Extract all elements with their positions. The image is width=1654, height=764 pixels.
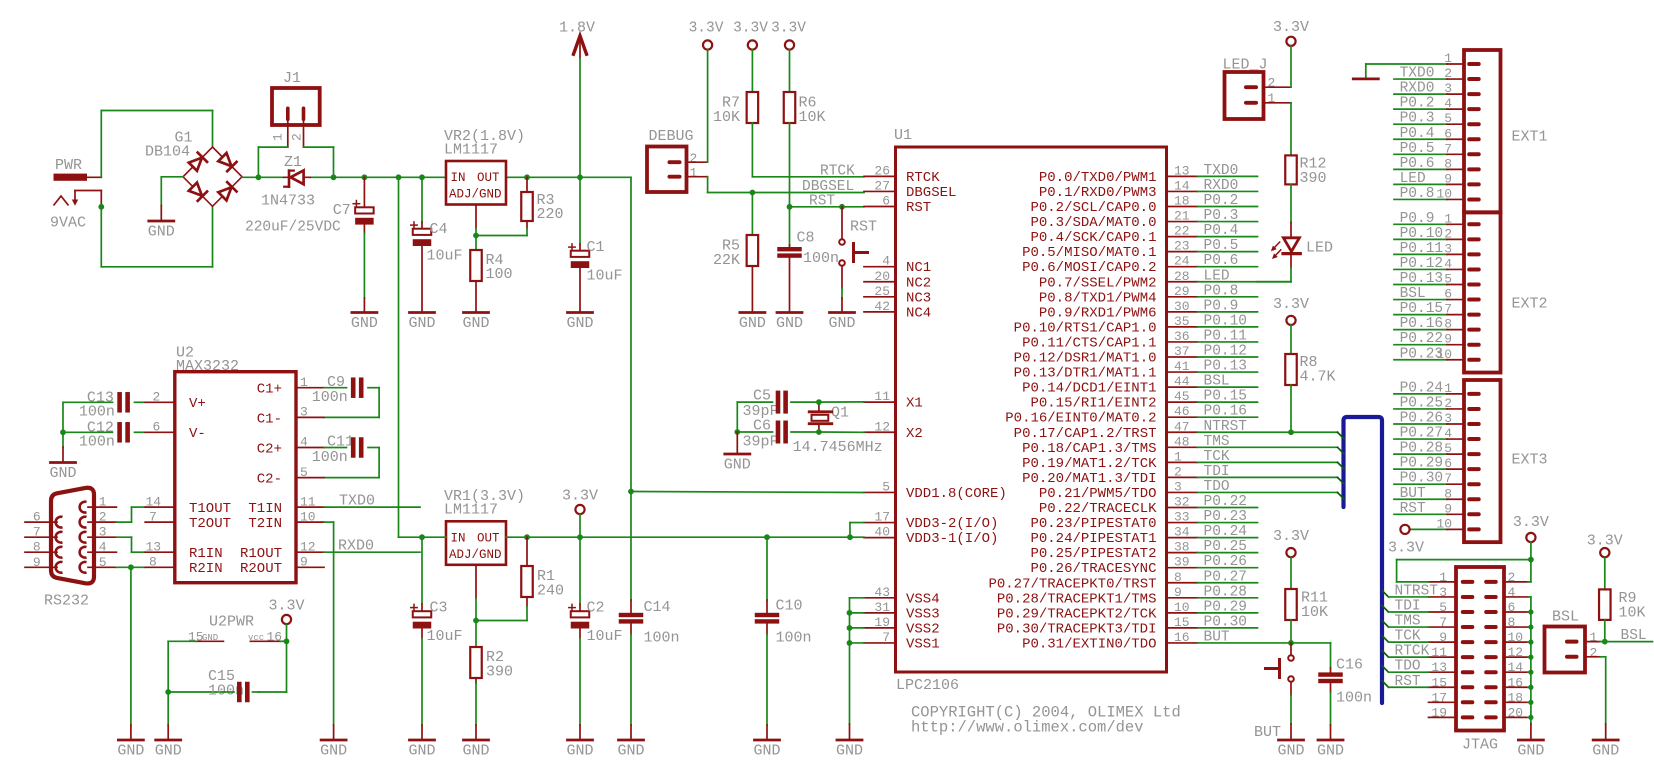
wire DEBUG pin2 to 3.3V xyxy=(707,50,709,163)
svg-text:RST: RST xyxy=(1395,674,1421,690)
svg-text:RXD0: RXD0 xyxy=(1400,81,1435,97)
bus JTAG (blue) xyxy=(1344,417,1383,703)
svg-text:4: 4 xyxy=(882,254,890,269)
JTAG left stubs xyxy=(1429,582,1457,717)
JTAG pin numbers xyxy=(1431,570,1523,720)
svg-text:NC3: NC3 xyxy=(906,290,931,306)
svg-text:3: 3 xyxy=(300,405,308,420)
wire U2PWR vcc/gnd + C15 xyxy=(168,641,286,692)
svg-text:P0.4: P0.4 xyxy=(1204,223,1239,239)
svg-text:1: 1 xyxy=(271,133,286,141)
connector EXT2 xyxy=(1464,213,1501,373)
svg-text:P0.27/TRACEPKT0/TRST: P0.27/TRACEPKT0/TRST xyxy=(988,576,1156,592)
svg-text:GND: GND xyxy=(828,315,855,332)
wire C13/C12 gnd leg xyxy=(62,402,64,432)
svg-text:2: 2 xyxy=(1590,645,1598,660)
svg-text:T1OUT: T1OUT xyxy=(189,501,231,517)
svg-text:NC1: NC1 xyxy=(906,260,931,276)
svg-text:11: 11 xyxy=(874,389,890,404)
diode G1 bottom-right xyxy=(218,182,237,201)
svg-text:41: 41 xyxy=(1174,359,1190,374)
svg-text:P0.11: P0.11 xyxy=(1400,241,1444,257)
svg-text:10uF: 10uF xyxy=(587,628,623,645)
pushbutton BUT xyxy=(1254,643,1305,760)
svg-text:P0.23: P0.23 xyxy=(1204,509,1248,525)
svg-text:C2+: C2+ xyxy=(257,442,282,458)
wire DB9 pin5 / R2IN to gnd xyxy=(116,555,174,570)
svg-text:P0.22: P0.22 xyxy=(1204,494,1248,510)
svg-text:1: 1 xyxy=(1174,449,1182,464)
svg-text:10: 10 xyxy=(1174,600,1190,615)
svg-text:RST: RST xyxy=(850,219,877,236)
svg-text:BUT: BUT xyxy=(1204,629,1230,645)
svg-text:EXT1: EXT1 xyxy=(1512,129,1548,146)
capacitor C12 100n xyxy=(63,420,175,451)
svg-text:7: 7 xyxy=(882,630,890,645)
capacitor C6 39pF xyxy=(737,418,819,451)
ground DB9 pin5 xyxy=(130,567,132,725)
svg-text:P0.28/TRACEPKT1/TMS: P0.28/TRACEPKT1/TMS xyxy=(997,591,1157,607)
svg-text:GND: GND xyxy=(1317,743,1344,760)
svg-text:14: 14 xyxy=(1174,178,1190,193)
regulator VR1 LM1117 3.3V xyxy=(444,488,525,565)
svg-text:P0.18/CAP1.3/TMS: P0.18/CAP1.3/TMS xyxy=(1022,441,1156,457)
junction BUT at R11 xyxy=(1288,640,1294,646)
svg-text:GND: GND xyxy=(1517,743,1544,760)
svg-text:DBGSEL: DBGSEL xyxy=(906,185,956,201)
svg-text:P0.23/PIPESTAT0: P0.23/PIPESTAT0 xyxy=(1030,516,1156,532)
svg-text:P0.26: P0.26 xyxy=(1400,411,1444,427)
ground JTAG xyxy=(1517,724,1544,760)
ground U2PWR xyxy=(167,692,169,725)
svg-text:3.3V: 3.3V xyxy=(1513,514,1549,531)
wire RXD0 from U2 xyxy=(296,538,420,555)
svg-text:P0.4: P0.4 xyxy=(1400,126,1435,142)
connector RS232 DB9 xyxy=(44,488,94,610)
svg-text:8: 8 xyxy=(1174,570,1182,585)
junction V+ at C4 xyxy=(419,174,425,180)
wire JTAG pin2 xyxy=(1504,560,1531,582)
junction 9VAC node xyxy=(98,204,104,210)
svg-text:BUT: BUT xyxy=(1254,724,1281,741)
svg-text:390: 390 xyxy=(486,664,513,681)
supply 3.3V at U2PWR xyxy=(268,598,304,642)
svg-text:P0.15/RI1/EINT2: P0.15/RI1/EINT2 xyxy=(1030,396,1156,412)
capacitor C8 100n xyxy=(776,207,839,332)
resistor R12 390 xyxy=(1285,103,1326,223)
svg-text:P0.8: P0.8 xyxy=(1204,283,1239,299)
svg-text:OUT: OUT xyxy=(477,171,500,185)
svg-text:2: 2 xyxy=(1174,464,1182,479)
svg-text:P0.30: P0.30 xyxy=(1400,471,1444,487)
svg-text:2: 2 xyxy=(153,390,161,405)
svg-text:GND: GND xyxy=(1592,743,1619,760)
wire VR1 ADJ xyxy=(475,565,477,621)
resistor R3 220 xyxy=(521,177,563,235)
svg-text:P0.28: P0.28 xyxy=(1400,441,1444,457)
junction JTAG gnd xyxy=(1528,715,1533,720)
svg-text:1: 1 xyxy=(300,375,308,390)
U1 right net label wires xyxy=(1198,163,1338,646)
svg-text:Q1: Q1 xyxy=(831,405,849,422)
junction 1.8V at C1 xyxy=(577,174,583,180)
svg-text:P0.9: P0.9 xyxy=(1400,211,1435,227)
svg-text:P0.13: P0.13 xyxy=(1400,271,1444,287)
junction RST at button xyxy=(839,204,845,210)
net labels RTCK DBGSEL RST at U1 xyxy=(802,164,855,210)
svg-text:C4: C4 xyxy=(430,221,448,238)
svg-text:8: 8 xyxy=(149,555,157,570)
wire BSL net xyxy=(1600,628,1652,644)
capacitor C11 100n xyxy=(296,434,379,480)
svg-text:VDD3-1(I/O): VDD3-1(I/O) xyxy=(906,531,998,547)
svg-text:10K: 10K xyxy=(1301,604,1328,621)
wire DBGSEL net xyxy=(708,177,864,193)
svg-text:P0.2: P0.2 xyxy=(1204,193,1239,209)
svg-text:NC2: NC2 xyxy=(906,275,931,291)
wire main V+ net xyxy=(242,176,446,178)
svg-text:U1: U1 xyxy=(894,127,912,144)
supply 3.3V at R7 xyxy=(733,21,768,50)
svg-text:P0.5: P0.5 xyxy=(1204,238,1239,254)
svg-text:20: 20 xyxy=(874,269,890,284)
U2 R2OUT stub xyxy=(296,555,324,570)
svg-text:VSS4: VSS4 xyxy=(906,591,940,607)
jack 9VAC contact symbol xyxy=(50,191,101,232)
IC U1 LPC2106 body xyxy=(894,127,1167,694)
svg-text:RXD0: RXD0 xyxy=(1204,178,1239,194)
svg-text:1: 1 xyxy=(690,166,698,181)
EXT1 pin wires and labels xyxy=(1366,51,1464,202)
svg-text:TXD0: TXD0 xyxy=(339,493,375,510)
wire C5/C6 ground leg xyxy=(736,402,738,432)
svg-text:P0.5: P0.5 xyxy=(1400,141,1435,157)
svg-text:P0.10: P0.10 xyxy=(1204,313,1248,329)
svg-text:VDD1.8(CORE): VDD1.8(CORE) xyxy=(906,486,1007,502)
svg-text:9: 9 xyxy=(33,555,41,570)
svg-text:C10: C10 xyxy=(776,598,803,615)
wire J1 bypass xyxy=(258,147,333,177)
svg-text:P0.3/SDA/MAT0.0: P0.3/SDA/MAT0.0 xyxy=(1030,215,1156,231)
svg-text:C7: C7 xyxy=(333,202,351,219)
capacitor C3 10uF xyxy=(408,537,462,759)
svg-text:5: 5 xyxy=(99,555,107,570)
resistor R6 10K pullup RST xyxy=(784,50,826,207)
svg-text:TMS: TMS xyxy=(1395,614,1421,630)
svg-text:3.3V: 3.3V xyxy=(689,21,724,37)
svg-text:BSL: BSL xyxy=(1400,286,1426,302)
svg-text:P0.2: P0.2 xyxy=(1400,96,1435,112)
svg-text:4: 4 xyxy=(300,435,308,450)
svg-text:C8: C8 xyxy=(797,230,815,247)
svg-text:23: 23 xyxy=(1174,239,1190,254)
svg-text:48: 48 xyxy=(1174,434,1190,449)
svg-text:6: 6 xyxy=(882,194,890,209)
svg-text:R1OUT: R1OUT xyxy=(240,546,282,562)
svg-text:GND: GND xyxy=(1277,743,1304,760)
ground at C5/C6 xyxy=(724,432,751,474)
ground at bridge negative xyxy=(148,177,183,241)
svg-text:14: 14 xyxy=(146,494,162,509)
svg-text:21: 21 xyxy=(1174,209,1190,224)
resistor R4 100 xyxy=(462,236,512,333)
wire VR2 ADJ node xyxy=(476,205,527,236)
svg-text:LM1117: LM1117 xyxy=(444,502,498,519)
capacitor C10 100n xyxy=(753,537,811,759)
svg-text:RST: RST xyxy=(906,200,931,216)
ground at EXT1 pin1 xyxy=(1353,64,1378,79)
capacitor C7 220uF/25VDC xyxy=(245,177,374,298)
junction U2PWR vcc xyxy=(284,638,290,644)
svg-text:R1IN: R1IN xyxy=(189,546,223,562)
svg-text:3.3V: 3.3V xyxy=(1587,533,1623,550)
junction JTAG gnd xyxy=(1528,670,1533,675)
svg-text:Z1: Z1 xyxy=(284,154,302,171)
svg-text:2: 2 xyxy=(289,133,304,141)
junction rail C2/3.3V xyxy=(577,534,583,540)
pushbutton RST xyxy=(828,207,877,332)
wire JTAG pin1 to 3.3V xyxy=(1397,560,1531,582)
junction JTAG 3.3V xyxy=(1528,557,1534,563)
svg-text:16: 16 xyxy=(1174,630,1190,645)
svg-text:35: 35 xyxy=(1174,314,1190,329)
svg-text:R2IN: R2IN xyxy=(189,561,223,577)
svg-text:9: 9 xyxy=(1174,585,1182,600)
svg-text:42: 42 xyxy=(874,299,890,314)
svg-text:22K: 22K xyxy=(713,252,740,269)
svg-text:P0.7/SSEL/PWM2: P0.7/SSEL/PWM2 xyxy=(1039,275,1157,291)
svg-text:EXT3: EXT3 xyxy=(1512,452,1548,469)
svg-text:P0.28: P0.28 xyxy=(1204,584,1248,600)
svg-text:44: 44 xyxy=(1174,374,1190,389)
svg-text:15: 15 xyxy=(1174,615,1190,630)
bridge rectifier G1 DB104 xyxy=(145,130,242,207)
svg-text:4: 4 xyxy=(99,540,107,555)
wire DB9 pin2 to T1OUT xyxy=(116,494,174,522)
svg-text:TDO: TDO xyxy=(1204,479,1230,495)
svg-text:31: 31 xyxy=(874,600,890,615)
ground at C12/C13 xyxy=(49,432,76,482)
svg-text:IN: IN xyxy=(451,171,466,185)
resistor R2 390 xyxy=(462,621,513,760)
svg-text:34: 34 xyxy=(1174,525,1190,540)
connector DEBUG xyxy=(647,128,708,192)
wire BSL pin2 to gnd xyxy=(1592,657,1619,760)
svg-text:P0.24/PIPESTAT1: P0.24/PIPESTAT1 xyxy=(1030,531,1156,547)
svg-text:GND: GND xyxy=(739,315,766,332)
EXT2 pin wires and labels xyxy=(1394,211,1464,362)
svg-text:3.3V: 3.3V xyxy=(733,21,768,37)
svg-text:V+: V+ xyxy=(189,396,206,412)
DB9 left pins 6-9 xyxy=(25,510,63,573)
svg-text:RST: RST xyxy=(1400,501,1426,517)
svg-text:EXT2: EXT2 xyxy=(1512,296,1548,313)
svg-text:P0.15: P0.15 xyxy=(1400,301,1444,317)
svg-text:1: 1 xyxy=(99,495,107,510)
svg-text:GND: GND xyxy=(148,224,175,241)
svg-text:P0.4/SCK/CAP0.1: P0.4/SCK/CAP0.1 xyxy=(1030,230,1156,246)
svg-text:13: 13 xyxy=(1174,163,1190,178)
svg-text:3.3V: 3.3V xyxy=(268,598,304,615)
svg-text:P0.15: P0.15 xyxy=(1204,389,1248,405)
svg-text:GND: GND xyxy=(408,743,435,760)
svg-text:RTCK: RTCK xyxy=(1395,644,1430,660)
svg-text:RTCK: RTCK xyxy=(906,170,940,186)
wire 3.3V rail xyxy=(506,536,850,538)
svg-text:X2: X2 xyxy=(906,426,923,442)
resistor R8 4.7K pullup NTRST xyxy=(1285,354,1335,432)
junction JTAG gnd xyxy=(1528,655,1533,660)
svg-text:32: 32 xyxy=(1174,495,1190,510)
svg-text:VSS3: VSS3 xyxy=(906,606,940,622)
svg-text:27: 27 xyxy=(874,178,890,193)
svg-text:17: 17 xyxy=(874,510,890,525)
svg-text:10K: 10K xyxy=(799,109,826,126)
DB9 right pins 1-5 xyxy=(80,495,117,573)
svg-text:13: 13 xyxy=(146,539,162,554)
svg-text:10K: 10K xyxy=(713,109,740,126)
svg-text:100n: 100n xyxy=(312,389,348,406)
U2 T2OUT stub xyxy=(145,509,175,524)
supply 3.3V at LED_J xyxy=(1273,19,1309,87)
EXT3 pin wires and labels xyxy=(1394,380,1464,531)
svg-text:10: 10 xyxy=(300,509,316,524)
diode G1 top-right xyxy=(218,152,237,171)
wire AC loop from PWR/9VAC to bridge xyxy=(101,111,212,267)
supply 3.3V at R6 xyxy=(771,21,806,50)
svg-text:C2-: C2- xyxy=(257,472,282,488)
junction ADJ VR2 xyxy=(473,233,479,239)
svg-text:1: 1 xyxy=(1268,91,1276,106)
svg-text:T1IN: T1IN xyxy=(248,501,282,517)
svg-text:VDD3-2(I/O): VDD3-2(I/O) xyxy=(906,516,998,532)
svg-text:P0.2/SCL/CAP0.0: P0.2/SCL/CAP0.0 xyxy=(1030,200,1156,216)
svg-text:GND: GND xyxy=(408,315,435,332)
svg-text:P0.6: P0.6 xyxy=(1204,253,1239,269)
svg-text:LED: LED xyxy=(1204,268,1230,284)
capacitor C15 100n xyxy=(208,668,259,702)
resistor R9 10K xyxy=(1599,589,1645,641)
U1 left pin names xyxy=(906,170,1007,653)
svg-text:100n: 100n xyxy=(803,250,839,267)
JTAG right even-pin stubs xyxy=(1504,597,1531,717)
svg-text:14.7456MHz: 14.7456MHz xyxy=(793,439,883,456)
junction JTAG gnd xyxy=(1528,685,1533,690)
svg-text:GND: GND xyxy=(566,743,593,760)
svg-text:BSL: BSL xyxy=(1621,628,1647,644)
junction V+ at J1 pin1 xyxy=(256,174,262,180)
svg-text:NTRST: NTRST xyxy=(1395,583,1439,599)
junction X2 at Q1 xyxy=(816,429,822,435)
svg-text:C2: C2 xyxy=(587,600,605,617)
svg-text:C1-: C1- xyxy=(257,411,282,427)
crystal Q1 14.7456MHz xyxy=(793,402,883,456)
svg-text:BSL: BSL xyxy=(1204,374,1230,390)
svg-text:LPC2106: LPC2106 xyxy=(896,677,959,694)
svg-text:7: 7 xyxy=(149,509,157,524)
junction DBGSEL at R5 xyxy=(750,190,756,196)
wire JTAG gnd column xyxy=(1530,597,1532,724)
capacitor C13 100n xyxy=(63,390,175,421)
svg-text:43: 43 xyxy=(874,585,890,600)
svg-text:P0.1/RXD0/PWM3: P0.1/RXD0/PWM3 xyxy=(1039,185,1157,201)
svg-text:P0.12: P0.12 xyxy=(1204,344,1248,360)
supply 3.3V at JTAG xyxy=(1513,514,1549,560)
svg-text:3: 3 xyxy=(1174,479,1182,494)
svg-text:11: 11 xyxy=(300,494,316,509)
junction RST at R6/C8 xyxy=(787,204,793,210)
connector J1 (zener bypass jumper) xyxy=(271,70,320,147)
svg-text:2: 2 xyxy=(1268,76,1276,91)
svg-text:220uF/25VDC: 220uF/25VDC xyxy=(245,220,341,236)
svg-text:P0.8: P0.8 xyxy=(1400,186,1435,202)
svg-text:BSL: BSL xyxy=(1552,609,1579,626)
svg-text:22: 22 xyxy=(1174,224,1190,239)
svg-text:33: 33 xyxy=(1174,510,1190,525)
svg-text:LED: LED xyxy=(1400,171,1426,187)
svg-text:3.3V: 3.3V xyxy=(1388,540,1424,557)
bus exits to JTAG + labels xyxy=(1382,583,1438,689)
svg-text:P0.16: P0.16 xyxy=(1400,316,1444,332)
junction 1.8V at R3 xyxy=(524,174,530,180)
svg-text:GND: GND xyxy=(49,465,76,482)
svg-text:6: 6 xyxy=(33,510,41,525)
supply 3.3V at EXT3 pin10 xyxy=(1400,525,1409,534)
svg-text:3.3V: 3.3V xyxy=(1273,19,1309,36)
svg-text:P0.8/TXD1/PWM4: P0.8/TXD1/PWM4 xyxy=(1039,290,1157,306)
svg-text:6: 6 xyxy=(153,420,161,435)
svg-text:P0.16: P0.16 xyxy=(1204,404,1248,420)
junction rail VDD3 xyxy=(847,534,853,540)
svg-text:TXD0: TXD0 xyxy=(1400,66,1435,82)
svg-text:GND: GND xyxy=(724,457,751,474)
svg-text:TCK: TCK xyxy=(1204,449,1230,465)
bus entries from U1 xyxy=(1338,432,1345,499)
svg-text:P0.29: P0.29 xyxy=(1400,456,1444,472)
svg-text:P0.6/MOSI/CAP0.2: P0.6/MOSI/CAP0.2 xyxy=(1022,260,1156,276)
junction 1.8V branch xyxy=(628,489,634,495)
diode G1 top-left xyxy=(188,153,207,172)
svg-text:TMS: TMS xyxy=(1204,434,1230,450)
capacitor C4 10uF xyxy=(408,177,462,332)
svg-text:P0.17/CAP1.2/TRST: P0.17/CAP1.2/TRST xyxy=(1014,426,1157,442)
svg-text:LM1117: LM1117 xyxy=(444,142,498,159)
svg-text:19: 19 xyxy=(874,615,890,630)
svg-text:P0.12: P0.12 xyxy=(1400,256,1444,272)
svg-text:P0.3: P0.3 xyxy=(1204,208,1239,224)
svg-text:12: 12 xyxy=(874,419,890,434)
ground VSS xyxy=(836,724,863,760)
capacitor C14 100n xyxy=(617,492,679,760)
svg-text:10K: 10K xyxy=(1619,604,1646,621)
U2 right stubs xyxy=(0,0,1,1)
svg-text:ADJ/GND: ADJ/GND xyxy=(449,188,502,202)
svg-text:P0.22/TRACECLK: P0.22/TRACECLK xyxy=(1039,501,1157,517)
ground C7 xyxy=(351,298,378,332)
svg-text:1: 1 xyxy=(1590,630,1598,645)
svg-text:30: 30 xyxy=(1174,299,1190,314)
svg-text:3.3V: 3.3V xyxy=(1273,528,1309,545)
svg-text:P0.16/EINT0/MAT0.2: P0.16/EINT0/MAT0.2 xyxy=(1005,411,1156,427)
junction JTAG gnd xyxy=(1528,609,1533,614)
connector JTAG xyxy=(1456,567,1504,754)
svg-text:P0.29: P0.29 xyxy=(1204,599,1248,615)
capacitor C16 100n xyxy=(1317,643,1372,760)
svg-text:P0.26: P0.26 xyxy=(1204,554,1248,570)
svg-text:P0.27: P0.27 xyxy=(1400,426,1444,442)
svg-text:T2IN: T2IN xyxy=(248,516,282,532)
connector EXT3 xyxy=(1464,380,1501,542)
